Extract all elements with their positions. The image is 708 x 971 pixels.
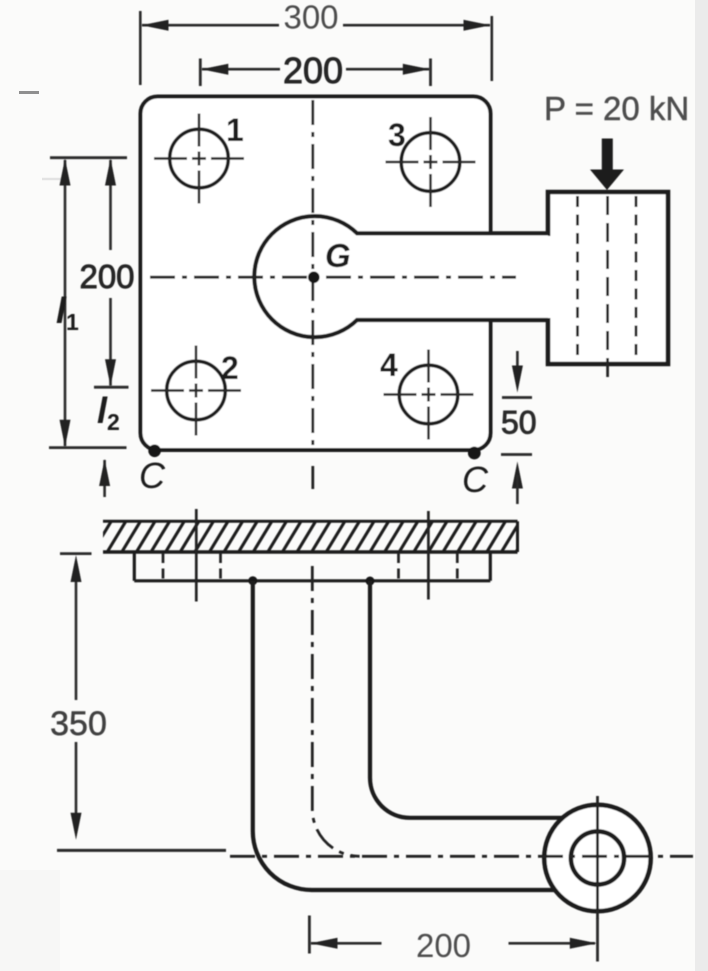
flange divider dashed 2 — [219, 553, 222, 580]
eye vertical centreline — [596, 796, 599, 919]
svg-text:350: 350 — [50, 705, 107, 743]
svg-text:C: C — [462, 459, 489, 500]
svg-text:200: 200 — [79, 258, 134, 295]
dimension 200 left line + arrows — [109, 160, 112, 250]
left dims: top tick — [50, 156, 127, 159]
svg-text:200: 200 — [416, 927, 471, 964]
svg-text:P = 20 kN: P = 20 kN — [544, 90, 689, 127]
bolt hole 3 — [401, 133, 460, 192]
svg-text:C: C — [139, 455, 166, 496]
dimension 200 top: dimension line + arrows — [202, 68, 280, 71]
dimension 50: upper tick — [502, 396, 532, 399]
hole 3 crosshair — [429, 117, 432, 150]
flange right cap — [489, 552, 492, 581]
eye inner circle — [571, 831, 624, 884]
flange junction dot left — [248, 576, 257, 585]
centre of gravity G dot — [308, 272, 320, 284]
svg-text:200: 200 — [283, 50, 343, 91]
dimension 300: extension line left — [139, 11, 142, 85]
dimension 200 bottom: line + arrows — [311, 942, 382, 945]
column centreline with bend — [312, 566, 359, 856]
dimension 50: lower arrow — [512, 462, 523, 489]
dimension 50: upper arrow — [516, 351, 519, 380]
bottom horizontal centreline — [230, 855, 693, 858]
bolt hole 2 — [167, 361, 226, 420]
flange divider dashed 3 — [397, 553, 400, 580]
bolt hole 1 — [170, 129, 229, 188]
svg-text:3: 3 — [388, 117, 406, 153]
eye outer circle — [544, 805, 650, 911]
bolt hole 4 — [399, 365, 458, 424]
loaded block under P — [548, 192, 668, 364]
dimension 300: extension line right — [490, 16, 493, 81]
scan smudge marks — [19, 91, 39, 94]
wall top edge — [103, 520, 518, 523]
bolt centreline left — [195, 509, 198, 602]
wall bottom edge — [103, 550, 518, 553]
short centreline dash below plate — [311, 466, 314, 489]
svg-text:1: 1 — [66, 309, 79, 335]
bracket plate (rounded square) — [141, 97, 491, 451]
flange left cap — [133, 552, 136, 581]
load P arrow — [602, 139, 613, 172]
hole 1 crosshair — [198, 114, 201, 147]
bolt centreline right — [427, 511, 430, 600]
svg-text:1: 1 — [226, 112, 244, 148]
plate vertical centreline — [311, 100, 314, 447]
left dims: mid tick (hole row 2) — [94, 386, 129, 389]
flange divider dashed 1 — [162, 553, 165, 580]
dimension 200 bottom: tick left — [308, 916, 311, 954]
l2 lower arrow below plate — [103, 460, 106, 497]
flange bottom edge — [134, 579, 490, 582]
svg-text:300: 300 — [283, 0, 338, 36]
svg-text:50: 50 — [501, 405, 537, 441]
svg-text:2: 2 — [107, 409, 120, 435]
horizontal centreline through G — [150, 276, 516, 279]
corner point C right — [468, 447, 481, 460]
dimension 200 bottom: tick right — [596, 918, 599, 962]
svg-text:2: 2 — [221, 350, 239, 386]
corner point C left — [148, 445, 161, 458]
block dashed line right — [635, 196, 638, 358]
dimension 200 top: tick left — [199, 59, 202, 87]
hole 2 crosshair — [195, 346, 198, 379]
flange divider dashed 4 — [456, 553, 459, 580]
block dashed load line centre — [606, 196, 609, 382]
dimension 350: line + arrows — [75, 568, 78, 700]
dimension 300: dimension line + arrows — [142, 24, 279, 27]
dimension l1 line + arrows — [64, 160, 67, 446]
dimension 350: top tick — [60, 552, 92, 555]
dimension 50: lower tick — [501, 453, 532, 456]
central boss with arm — [254, 216, 548, 337]
flange junction dot right — [366, 577, 375, 586]
svg-text:4: 4 — [380, 347, 398, 383]
svg-text:G: G — [325, 237, 351, 274]
column outer edge (left/bottom) — [253, 581, 558, 890]
hole 4 crosshair — [427, 350, 430, 383]
block dashed line left — [576, 196, 579, 358]
dimension 200 top: tick right — [429, 59, 432, 87]
left dims: bottom tick (plate bottom) — [49, 446, 127, 449]
wall right end cap — [516, 521, 519, 552]
dimension 350: bottom reference line — [57, 849, 226, 852]
column inner edge (right/top) — [370, 581, 563, 818]
